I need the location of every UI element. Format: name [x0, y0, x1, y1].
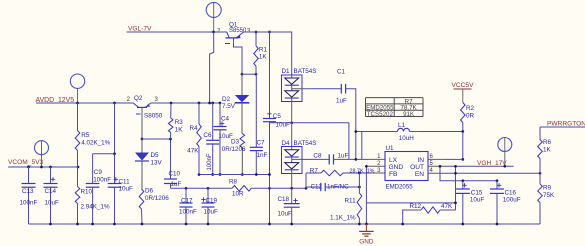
svg-text:PWRRGTON: PWRRGTON: [547, 121, 585, 128]
svg-text:D4: D4: [282, 140, 291, 147]
svg-text:C19: C19: [206, 197, 218, 204]
resistor R6 1K: [538, 140, 543, 159]
node C16 top: [496, 179, 499, 182]
svg-text:EN: EN: [415, 171, 424, 178]
svg-text:C12: C12: [311, 184, 323, 191]
wire R12 net horizontal: [366, 202, 455, 204]
svg-text:0R: 0R: [466, 113, 475, 120]
svg-text:91K: 91K: [403, 111, 415, 118]
wire D4 pin to C8 to U1 LX: [302, 158, 329, 160]
svg-text:Q2: Q2: [134, 95, 143, 102]
node D1-D4 column tap: [290, 121, 293, 124]
node AVDD rail end / C4 top: [219, 102, 222, 105]
svg-text:D5: D5: [151, 152, 160, 159]
svg-text:GND: GND: [389, 164, 404, 171]
svg-text:47K: 47K: [187, 148, 199, 155]
svg-text:47K: 47K: [441, 203, 453, 210]
capacitor C13 100nF: [28, 167, 30, 184]
wire D1 mid pin to C1: [292, 88, 311, 90]
resistor-jumper D3 0R/1206: [240, 134, 245, 148]
svg-text:S8550: S8550: [229, 28, 247, 34]
wire EN net: [428, 172, 445, 174]
svg-text:D6: D6: [145, 188, 154, 195]
resistor R2 0R: [461, 103, 466, 123]
svg-text:C1: C1: [337, 69, 346, 76]
svg-text:1uF: 1uF: [171, 181, 182, 188]
svg-text:LX: LX: [389, 157, 398, 164]
wire OUT to R12 vertical: [455, 166, 457, 210]
capacitor C19 10uF: [207, 188, 209, 203]
wire L1 row second drop: [361, 132, 363, 160]
transistor Q2 S8050: [133, 103, 138, 107]
svg-text:28.7K_1%: 28.7K_1%: [350, 168, 375, 174]
wire bottom GND rail: [29, 223, 541, 225]
svg-text:VCC5V: VCC5V: [452, 82, 475, 89]
wire mid net y174: [199, 174, 270, 176]
capacitor C5 10uF: [269, 32, 271, 119]
wire VCC column to IN pin: [462, 132, 464, 160]
resistor R1 1K: [255, 32, 257, 46]
wire collector rail to D1: [244, 32, 292, 75]
svg-text:75K: 75K: [543, 192, 555, 199]
svg-text:C16: C16: [505, 190, 517, 197]
node C17 top: [185, 187, 188, 190]
wire FB net left: [306, 172, 321, 174]
wire D4 bottom to C18: [291, 174, 293, 189]
resistor-jumper D6 0R/1206: [139, 189, 144, 209]
svg-text:R4: R4: [189, 125, 198, 132]
svg-text:2: 2: [127, 97, 131, 103]
capacitor C18 10uF: [291, 188, 293, 203]
svg-text:100nF: 100nF: [93, 177, 111, 184]
node C12 branch: [305, 187, 308, 190]
resistor R11 1.1K_1%: [358, 173, 360, 193]
resistor R3 1K: [170, 102, 173, 105]
capacitor C14 10uF: [50, 167, 52, 184]
svg-text:2.94K_1%: 2.94K_1%: [81, 204, 110, 211]
svg-text:L1: L1: [398, 122, 406, 129]
wire label drop to R6: [539, 127, 541, 140]
svg-text:10uH: 10uH: [399, 135, 415, 142]
node VGL rail / C5 column: [268, 31, 271, 34]
wire Q2 base stem: [141, 107, 143, 139]
node C19 top: [207, 187, 210, 190]
capacitor C12 1nF/NC: [306, 186, 321, 188]
svg-text:EMD2055: EMD2055: [386, 183, 414, 190]
svg-text:BAT54S: BAT54S: [294, 140, 317, 147]
wire base junction to C10 top: [142, 139, 171, 179]
node C15 top: [461, 179, 464, 182]
svg-text:C13: C13: [22, 188, 34, 195]
wire D1 bottom to D4 top: [291, 102, 293, 147]
wire OUT VGH net: [428, 165, 445, 167]
svg-text:D2: D2: [222, 96, 231, 103]
svg-text:1nF: 1nF: [257, 152, 268, 159]
svg-text:VGH_17V: VGH_17V: [477, 160, 507, 167]
power port circle P3: [504, 138, 506, 167]
svg-text:1uF: 1uF: [338, 153, 349, 160]
resistor R5 4.02K_1%: [76, 102, 79, 105]
svg-text:100uF: 100uF: [503, 197, 521, 204]
diode D2 7.5V zener: [241, 74, 243, 95]
svg-text:C8: C8: [313, 153, 322, 160]
svg-text:R12: R12: [410, 203, 422, 210]
svg-text:VCOM_5V3: VCOM_5V3: [8, 159, 44, 166]
svg-text:FB: FB: [389, 171, 398, 178]
svg-text:10uF: 10uF: [45, 200, 60, 207]
inductor L1 10uH: [398, 128, 410, 131]
wire L1 left to LX node: [356, 131, 394, 133]
wire U1 GND pin to rail: [366, 165, 368, 167]
wire C9 top link: [93, 153, 115, 155]
wire C5 bottom rail to LX drop: [270, 122, 349, 124]
svg-text:C6: C6: [203, 132, 212, 139]
capacitor C11 10uF: [108, 183, 122, 185]
svg-text:10R: 10R: [232, 190, 244, 197]
svg-text:R8: R8: [229, 179, 238, 186]
wire IN pin: [428, 158, 445, 160]
svg-text:10uF: 10uF: [278, 211, 293, 218]
svg-text:GND: GND: [359, 239, 374, 246]
capacitor C6 100nF: [212, 103, 214, 140]
capacitor C16 100uF: [496, 181, 498, 189]
svg-text:7.5V: 7.5V: [222, 103, 236, 110]
svg-text:0R/1206: 0R/1206: [145, 195, 169, 202]
resistor R4 47K: [198, 102, 201, 105]
transistor Q1 S8550: [227, 32, 229, 38]
svg-text:R9: R9: [543, 185, 552, 192]
svg-text:R7: R7: [310, 168, 319, 175]
svg-text:U1: U1: [386, 145, 395, 152]
capacitor C9 100nF: [92, 154, 94, 184]
wire AVDD rail left segment: [36, 102, 133, 104]
svg-text:C4: C4: [221, 115, 230, 122]
resistor R9 75K: [539, 173, 541, 184]
capacitor C15 10uF: [462, 181, 464, 189]
capacitor C10 1uF: [164, 178, 177, 180]
svg-text:C7: C7: [257, 140, 266, 147]
wire AVDD to C11 column: [113, 102, 116, 105]
svg-text:VGL-7V: VGL-7V: [128, 26, 152, 33]
node LX / C1: [354, 158, 357, 161]
svg-text:S8050: S8050: [144, 113, 163, 120]
svg-text:R2: R2: [466, 105, 475, 112]
svg-text:C9: C9: [94, 169, 103, 176]
power port circle AVDD: [77, 88, 79, 103]
resistor R8 10R: [232, 186, 251, 192]
svg-text:R11: R11: [345, 198, 357, 205]
svg-text:R3: R3: [175, 119, 184, 126]
diode D5 13V zener: [141, 139, 143, 153]
op-amp U1 EMD2055 boost IC: [385, 152, 428, 181]
wire C1 right to LX node: [346, 89, 356, 160]
svg-text:C17: C17: [181, 197, 193, 204]
svg-text:1K: 1K: [543, 147, 552, 154]
svg-text:0R/1206: 0R/1206: [222, 146, 246, 153]
wire Q1 base stem: [234, 38, 243, 74]
node FB junction: [358, 172, 361, 175]
svg-text:D1: D1: [282, 68, 291, 75]
wire drop to LX row: [348, 123, 350, 160]
svg-text:TCS5202: TCS5202: [367, 111, 394, 118]
node Q2 base junction: [141, 138, 144, 141]
node VCC/L1 junction: [461, 130, 464, 133]
resistor R10 2.94K_1%: [77, 167, 79, 187]
capacitor C1 1uF: [340, 84, 342, 94]
svg-text:C5: C5: [273, 113, 282, 120]
table resistor selection R7: [366, 97, 424, 99]
svg-text:C18: C18: [278, 196, 290, 203]
capacitor C17 100nF: [185, 188, 187, 203]
svg-text:100nF: 100nF: [20, 200, 38, 207]
svg-text:C10: C10: [169, 171, 181, 178]
svg-text:3: 3: [155, 97, 159, 103]
ground symbol GND: [365, 224, 367, 231]
wire PWRRGTON rail: [540, 126, 585, 128]
svg-text:C11: C11: [119, 179, 131, 186]
svg-text:3: 3: [247, 28, 251, 34]
capacitor C7 1nF: [255, 74, 257, 147]
wire AVDD rail right segment: [151, 102, 220, 104]
svg-text:10uF: 10uF: [204, 209, 219, 216]
svg-text:10uF: 10uF: [119, 186, 134, 193]
svg-text:1K: 1K: [175, 127, 184, 134]
node AVDD rail / C6 column: [212, 102, 214, 104]
svg-text:C15: C15: [471, 189, 483, 196]
svg-text:R6: R6: [543, 139, 552, 146]
node D3 bottom on mid wire: [241, 173, 244, 176]
svg-text:1nF/NC: 1nF/NC: [327, 184, 349, 191]
wire VGL junction down-jog to AVDD rail end: [210, 32, 214, 103]
wire R8 net: [171, 187, 233, 189]
wire VGL-7V rail: [127, 31, 228, 33]
node VGL rail junction: [212, 31, 215, 34]
power port circle P2: [41, 141, 43, 167]
resistor R12 47K: [421, 207, 440, 213]
svg-text:4.02K_1%: 4.02K_1%: [81, 140, 110, 147]
power port circle P1 top: [213, 3, 215, 33]
wire U1 GND pin stub: [369, 165, 386, 167]
wire L1 right to VCC column: [419, 131, 463, 133]
svg-text:100nF: 100nF: [179, 209, 197, 216]
svg-text:OUT: OUT: [410, 164, 424, 171]
capacitor C4 10uF: [219, 103, 221, 127]
wire D4 mid pin to C8: [292, 158, 302, 160]
svg-text:BAT54S: BAT54S: [294, 68, 317, 75]
svg-text:1K: 1K: [259, 54, 268, 61]
svg-text:10uF: 10uF: [219, 133, 234, 140]
dual diode D1 BAT54S: [282, 75, 303, 102]
svg-text:IN: IN: [417, 157, 424, 164]
wire R7-C12 left vertical: [305, 173, 307, 188]
wire VGH to C15 C16: [440, 166, 497, 180]
svg-text:13V: 13V: [151, 160, 163, 167]
svg-text:1.1K_1%: 1.1K_1%: [330, 215, 356, 222]
node R11 top: [358, 186, 361, 189]
capacitor C8 1uF: [328, 154, 330, 164]
wire VCOM rail: [8, 166, 78, 168]
svg-text:100nF: 100nF: [207, 153, 213, 170]
wire base junction to R1 bottom: [242, 73, 256, 75]
dual diode D4 BAT54S: [282, 147, 303, 174]
svg-text:10uF: 10uF: [470, 196, 485, 203]
node Q1 base / R1 / D2 junction: [241, 73, 244, 76]
svg-text:1uF: 1uF: [336, 98, 347, 105]
svg-text:R1: R1: [259, 47, 268, 54]
svg-text:C14: C14: [45, 188, 57, 195]
svg-text:R10: R10: [81, 189, 93, 196]
resistor R7 28.7K_1%: [321, 170, 343, 176]
svg-text:R5: R5: [81, 132, 90, 139]
